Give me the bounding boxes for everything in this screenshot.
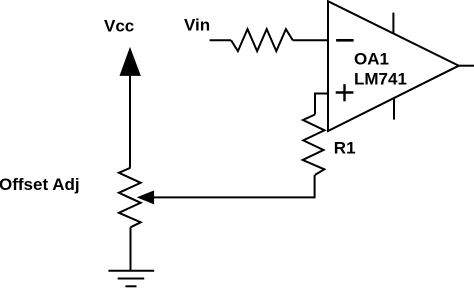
op-amp positive supply pin stub xyxy=(392,13,394,34)
svg-text:R1: R1 xyxy=(334,138,356,157)
op-amp negative supply pin stub xyxy=(393,98,395,119)
op-amp inverting input marker (-) xyxy=(336,39,354,42)
potentiometer wiper arrow xyxy=(138,191,154,204)
wire P1 bottom to ground xyxy=(130,227,132,270)
wire op-amp non-inverting input to R1 top xyxy=(315,94,328,115)
op-amp U1 triangle body xyxy=(328,1,459,131)
svg-text:LM741: LM741 xyxy=(354,70,407,89)
wire Vin to input resistor xyxy=(210,39,232,41)
potentiometer P1 body (Offset Adj) xyxy=(119,168,141,228)
wire op-amp output xyxy=(459,65,474,67)
svg-text:OA1: OA1 xyxy=(354,50,389,69)
op-amp non-inverting input marker (+) xyxy=(336,84,354,101)
Vcc supply arrow symbol xyxy=(120,48,140,75)
input resistor (series with Vin) xyxy=(231,29,293,51)
ground xyxy=(108,271,154,287)
svg-text:Offset Adj: Offset Adj xyxy=(0,175,80,194)
wire wiper to R1 bottom node xyxy=(154,175,315,198)
wire Vcc arrow to potentiometer P1 top xyxy=(129,75,131,168)
svg-text:Vin: Vin xyxy=(184,16,210,35)
wire input resistor to op-amp inverting input xyxy=(293,39,328,41)
svg-text:Vcc: Vcc xyxy=(104,17,134,36)
resistor R1 xyxy=(303,115,325,175)
